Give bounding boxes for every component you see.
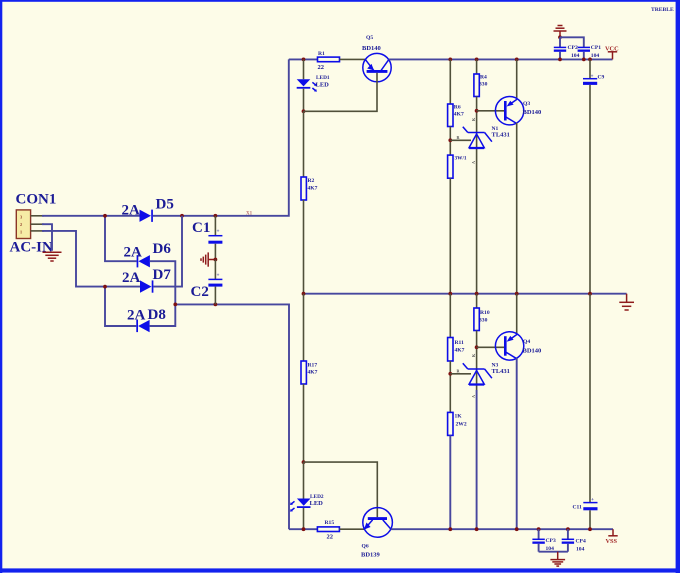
svg-text:104: 104 [571, 53, 580, 59]
wire R6 top stub [449, 59, 451, 104]
svg-text:D7: D7 [153, 267, 172, 283]
svg-text:C11: C11 [573, 505, 583, 511]
node N1 ref junction [448, 138, 452, 142]
svg-text:CP1: CP1 [591, 45, 601, 51]
node mid rail Q3 junction [515, 292, 519, 296]
svg-text:4K7: 4K7 [308, 186, 318, 192]
svg-text:R1: R1 [318, 51, 325, 57]
wire CP3 CP4 bottoms [539, 544, 568, 552]
ground between C1 C2 (sideways) [201, 252, 215, 266]
svg-text:X1: X1 [246, 212, 253, 217]
svg-text:+: + [217, 273, 220, 279]
transistor Q5 [363, 53, 391, 81]
wire bottom rail left [289, 528, 317, 530]
svg-text:LED: LED [310, 500, 324, 507]
LED LED2 [290, 462, 311, 529]
svg-text:22: 22 [327, 534, 334, 541]
svg-text:1: 1 [20, 229, 22, 234]
power symbol VCC [608, 52, 617, 60]
svg-text:R15: R15 [325, 520, 335, 526]
wire 1K to bottom rail [449, 435, 451, 529]
wire CP3 top stub [538, 529, 540, 539]
svg-text:C2: C2 [191, 284, 209, 300]
svg-text:2A: 2A [124, 244, 143, 260]
wire AC2 drop to D8 [105, 287, 136, 326]
node C9 rail junction [588, 58, 592, 62]
transistor Q3 [495, 97, 523, 125]
node rail R6 tap [448, 58, 452, 62]
svg-text:R6: R6 [454, 105, 461, 111]
wire CP4 top stub [567, 529, 569, 539]
wire R6 to R node [449, 127, 451, 156]
node mid rail R2 junction [302, 292, 306, 296]
node bottom rail Q4 junction [515, 527, 519, 531]
svg-text:CP4: CP4 [576, 539, 586, 545]
resistor R15 [317, 527, 339, 532]
svg-text:BD139: BD139 [361, 552, 381, 559]
node Q4 base junction [475, 345, 479, 349]
LED LED1 [297, 59, 317, 111]
wire V- horizontal to riser [175, 304, 289, 529]
wire Q5 base down-left [304, 73, 378, 112]
node mid rail C9 junction [588, 292, 592, 296]
wire N3 ref [450, 373, 471, 375]
svg-text:R10: R10 [480, 310, 490, 316]
wire D6 anode drop [150, 261, 175, 304]
node D5/D7 cathode junction [180, 214, 184, 218]
capacitor C2 [208, 273, 222, 287]
wire C1 bottom stub [214, 244, 216, 260]
wire R2 to mid rail [303, 200, 305, 294]
svg-text:R2: R2 [308, 178, 315, 184]
svg-text:2: 2 [20, 222, 22, 227]
resistor R10 [474, 308, 479, 331]
svg-text:Q3: Q3 [523, 101, 530, 107]
capacitor C9 [583, 74, 597, 85]
capacitor C1 [208, 229, 222, 244]
svg-text:LED: LED [316, 81, 330, 88]
svg-text:TL431: TL431 [492, 132, 510, 139]
diode D5 [140, 210, 153, 222]
diode D7 [140, 280, 153, 292]
svg-text:BD140: BD140 [362, 45, 381, 52]
transistor Q4 [495, 332, 523, 360]
node C2 bottom tap [214, 303, 218, 307]
svg-text:LED1: LED1 [316, 75, 330, 81]
svg-text:CON1: CON1 [16, 192, 57, 208]
svg-text:Q6: Q6 [362, 544, 369, 550]
node bottom rail C11 junction [588, 527, 592, 531]
wire mid rail [304, 293, 627, 295]
node C1 tap [214, 214, 218, 218]
resistor R17 [301, 361, 306, 384]
node mid rail 1K junction [448, 292, 452, 296]
resistor R1 [318, 57, 340, 62]
wire pin2 to ground [42, 224, 52, 251]
node mid rail N1 junction [475, 292, 479, 296]
node rail Q3 tap [515, 58, 519, 62]
svg-text:+: + [591, 497, 594, 503]
svg-text:A: A [471, 395, 476, 398]
wire CP1 top link [560, 37, 584, 47]
wire bottom rail right [391, 528, 613, 530]
wire Q3 emitter stub [516, 59, 518, 98]
node Q6 base junction [302, 460, 306, 464]
node bottom rail 1K junction [448, 527, 452, 531]
wire R11 column top [449, 294, 451, 338]
svg-text:+: + [591, 74, 594, 80]
wire R4 top stub [476, 59, 478, 74]
node CP2 rail junction [558, 58, 562, 62]
svg-text:3W/1: 3W/1 [455, 156, 467, 162]
svg-text:2W2: 2W2 [456, 422, 467, 428]
svg-text:AC-IN: AC-IN [10, 240, 53, 256]
svg-text:D8: D8 [148, 307, 166, 323]
node bottom rail CP4 junction [566, 527, 570, 531]
svg-text:1K: 1K [455, 414, 463, 420]
wire top rail right [389, 58, 613, 60]
wire C9 to mid rail [589, 85, 591, 294]
wire N1 ref [450, 139, 471, 141]
wire R2 column [303, 111, 305, 177]
power symbol VSS [608, 529, 617, 536]
wire CP1 bottom stub [583, 52, 585, 60]
svg-text:104: 104 [576, 547, 585, 553]
wire pin3 stub [31, 215, 44, 217]
transistor Q6 [363, 508, 393, 538]
connector CON1 [16, 210, 30, 239]
svg-text:330: 330 [479, 318, 488, 324]
wire Q6 base [304, 462, 378, 517]
svg-text:104: 104 [591, 53, 600, 59]
svg-text:D6: D6 [153, 241, 172, 257]
wire R10 to bottom rail through N3 [476, 331, 478, 391]
resistor R11 [448, 338, 453, 362]
resistor R4 [474, 74, 479, 97]
wire D5 cathode to X1 riser [153, 59, 289, 215]
node LED2/R15 junction [302, 527, 306, 531]
svg-text:4K7: 4K7 [455, 348, 465, 354]
capacitor CP1 [578, 47, 590, 51]
svg-text:4K7: 4K7 [454, 112, 464, 118]
svg-text:22: 22 [318, 64, 325, 71]
wire C1 top stub [214, 216, 216, 236]
ground above CP2 [554, 26, 567, 38]
wire N3 anode to bottom rail [476, 390, 478, 529]
wire C2 bottom stub [214, 287, 216, 305]
node LED1/R1 junction [302, 58, 306, 62]
wire C2 top stub [214, 260, 216, 280]
node Q5 base junction [302, 109, 306, 113]
svg-text:BD140: BD140 [523, 348, 542, 355]
node bottom rail N3 junction [475, 527, 479, 531]
svg-text:TL431: TL431 [492, 368, 510, 375]
wire Q4 collector to bottom rail [516, 358, 518, 529]
wire AC1 drop to D6 [105, 216, 137, 261]
wire 1K to mid rail [449, 178, 451, 294]
wire D8 anode rise [150, 304, 176, 326]
wire R11 to N3 ref node [449, 361, 451, 412]
svg-text:+: + [217, 229, 220, 235]
wire pin1 to D7 anode [42, 231, 140, 287]
wire CP2 top stub [559, 37, 561, 47]
ground mid right [619, 294, 634, 310]
wire Q4 base [477, 346, 504, 348]
svg-text:Q5: Q5 [366, 35, 373, 41]
node CP2 top junction [558, 35, 562, 39]
resistor R6 [448, 104, 453, 127]
svg-text:CP3: CP3 [546, 538, 556, 544]
svg-text:CP2: CP2 [568, 45, 578, 51]
capacitor CP3 [532, 539, 544, 544]
svg-text:2A: 2A [122, 202, 141, 218]
wire R15 to Q6 emitter [339, 528, 364, 530]
svg-text:2A: 2A [122, 270, 141, 286]
resistor 1K bias upper [448, 155, 453, 178]
svg-text:Q4: Q4 [523, 339, 530, 345]
wire pin2 stub [31, 223, 44, 225]
svg-text:TREBLE: TREBLE [651, 7, 674, 13]
wire Q4 emitter stub [516, 294, 518, 334]
node mid ground junction [214, 258, 218, 262]
wire pin3 to D5 anode [42, 215, 140, 217]
node V- junction [173, 303, 177, 307]
svg-text:C9: C9 [598, 75, 605, 81]
resistor 1K 2W2 [448, 412, 453, 435]
svg-text:4K7: 4K7 [308, 370, 318, 376]
svg-text:BD140: BD140 [523, 109, 542, 116]
wire R10 column top [476, 294, 478, 308]
wire R1 to Q5 emitter [340, 58, 366, 60]
wire top rail left [289, 58, 318, 60]
wire R17 to Q6 base node [303, 384, 305, 462]
diode D8 [136, 320, 149, 332]
wire C9 top stub [589, 59, 591, 78]
svg-text:2A: 2A [127, 307, 146, 323]
node rail R4 tap [475, 58, 479, 62]
svg-text:R17: R17 [308, 363, 318, 369]
wire CP2 bottom stub [559, 52, 561, 60]
wire R17 column top [303, 294, 305, 361]
node AC1 junction [103, 214, 107, 218]
ground below CON1 [43, 252, 62, 261]
node Q3 base junction [475, 109, 479, 113]
svg-text:330: 330 [479, 82, 488, 88]
node CP1 rail junction [582, 58, 586, 62]
capacitor CP4 [562, 539, 574, 544]
wire pin1 stub [31, 230, 44, 232]
svg-text:VCC: VCC [605, 46, 619, 53]
svg-text:R4: R4 [480, 75, 487, 81]
capacitor CP2 [554, 47, 566, 51]
wire C11 bottom stub [589, 510, 591, 529]
svg-text:3: 3 [20, 215, 22, 220]
shunt regulator N3 TL431 [463, 363, 492, 385]
node bottom rail CP3 junction [537, 527, 541, 531]
wire C11 column [589, 294, 591, 503]
svg-text:C1: C1 [192, 220, 210, 236]
svg-text:R11: R11 [455, 340, 465, 346]
svg-text:VSS: VSS [606, 538, 618, 545]
ground below CP3 CP4 [550, 552, 565, 566]
capacitor C11 [583, 497, 597, 510]
wire Q3 collector to mid rail [516, 123, 518, 294]
shunt regulator N1 TL431 [463, 127, 492, 149]
diode D6 [137, 255, 150, 267]
svg-text:D5: D5 [156, 196, 174, 212]
node AC2 junction [103, 285, 107, 289]
node N3 ref junction [448, 372, 452, 376]
svg-text:A: A [471, 161, 476, 164]
wire R4 to mid rail through N1 [476, 97, 478, 294]
resistor R2 [301, 177, 306, 200]
wire Q3 base [477, 110, 504, 112]
wire D7 cathode riser [153, 216, 182, 287]
